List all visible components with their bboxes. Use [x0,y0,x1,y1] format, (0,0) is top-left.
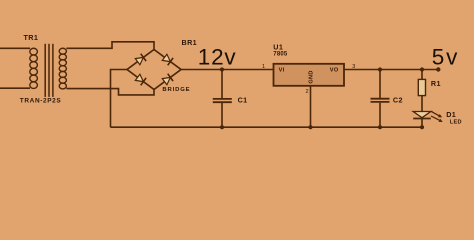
transformer TR1 secondary winding [59,48,66,89]
diode BR1 top-left [135,54,146,65]
bridge rectifier BR1 diamond [127,50,181,90]
svg-text:BR1: BR1 [182,38,198,47]
wire regulator output rail [344,69,438,71]
svg-text:7805: 7805 [273,52,288,58]
svg-text:BRIDGE: BRIDGE [162,87,190,93]
junction node C2 bottom [378,125,382,129]
svg-text:U1: U1 [273,42,283,51]
svg-text:TRAN-2P2S: TRAN-2P2S [20,98,62,105]
svg-text:C2: C2 [393,95,403,104]
transformer TR1 core [45,44,53,97]
svg-text:12v: 12v [198,44,237,69]
svg-text:TR1: TR1 [24,33,39,42]
junction node LED bottom [420,125,424,129]
capacitor C1 [213,70,232,128]
junction node C1 top [220,67,224,71]
svg-text:GND: GND [308,70,314,83]
svg-text:R1: R1 [431,79,441,88]
terminal dot end of 5v rail [436,67,440,71]
junction node C2 top [378,67,382,71]
wire bridge left corner to ground rail [111,70,128,128]
wire 12v rail bridge to regulator [181,69,274,71]
svg-text:C1: C1 [238,96,248,105]
wire mains top [0,47,30,49]
diode BR1 bottom-right [162,74,173,85]
svg-text:1: 1 [262,64,265,70]
wire ground bottom rail [111,126,423,128]
junction node C1 bottom [220,125,224,129]
diode BR1 bottom-left [135,74,146,85]
junction node pin2 ground [308,125,312,129]
wire regulator ground pin 2 [310,86,312,127]
wire mains bottom [0,87,30,89]
junction node R1 top [420,67,424,71]
svg-text:2: 2 [306,89,309,95]
svg-text:VO: VO [330,67,339,73]
svg-text:D1: D1 [446,110,456,119]
diode BR1 top-right [162,54,173,65]
svg-text:5v: 5v [432,44,459,69]
transformer TR1 primary winding [30,48,38,88]
svg-text:VI: VI [279,67,285,73]
resistor R1 [418,70,425,112]
capacitor C2 [371,70,390,128]
regulator U1 7805 body [274,64,345,86]
svg-text:LED: LED [450,120,462,126]
LED D1 arrows [431,111,443,122]
LED D1 [413,112,431,128]
wire secondary bottom to bridge bottom corner [66,89,154,95]
wire secondary top to bridge top corner [66,42,154,50]
